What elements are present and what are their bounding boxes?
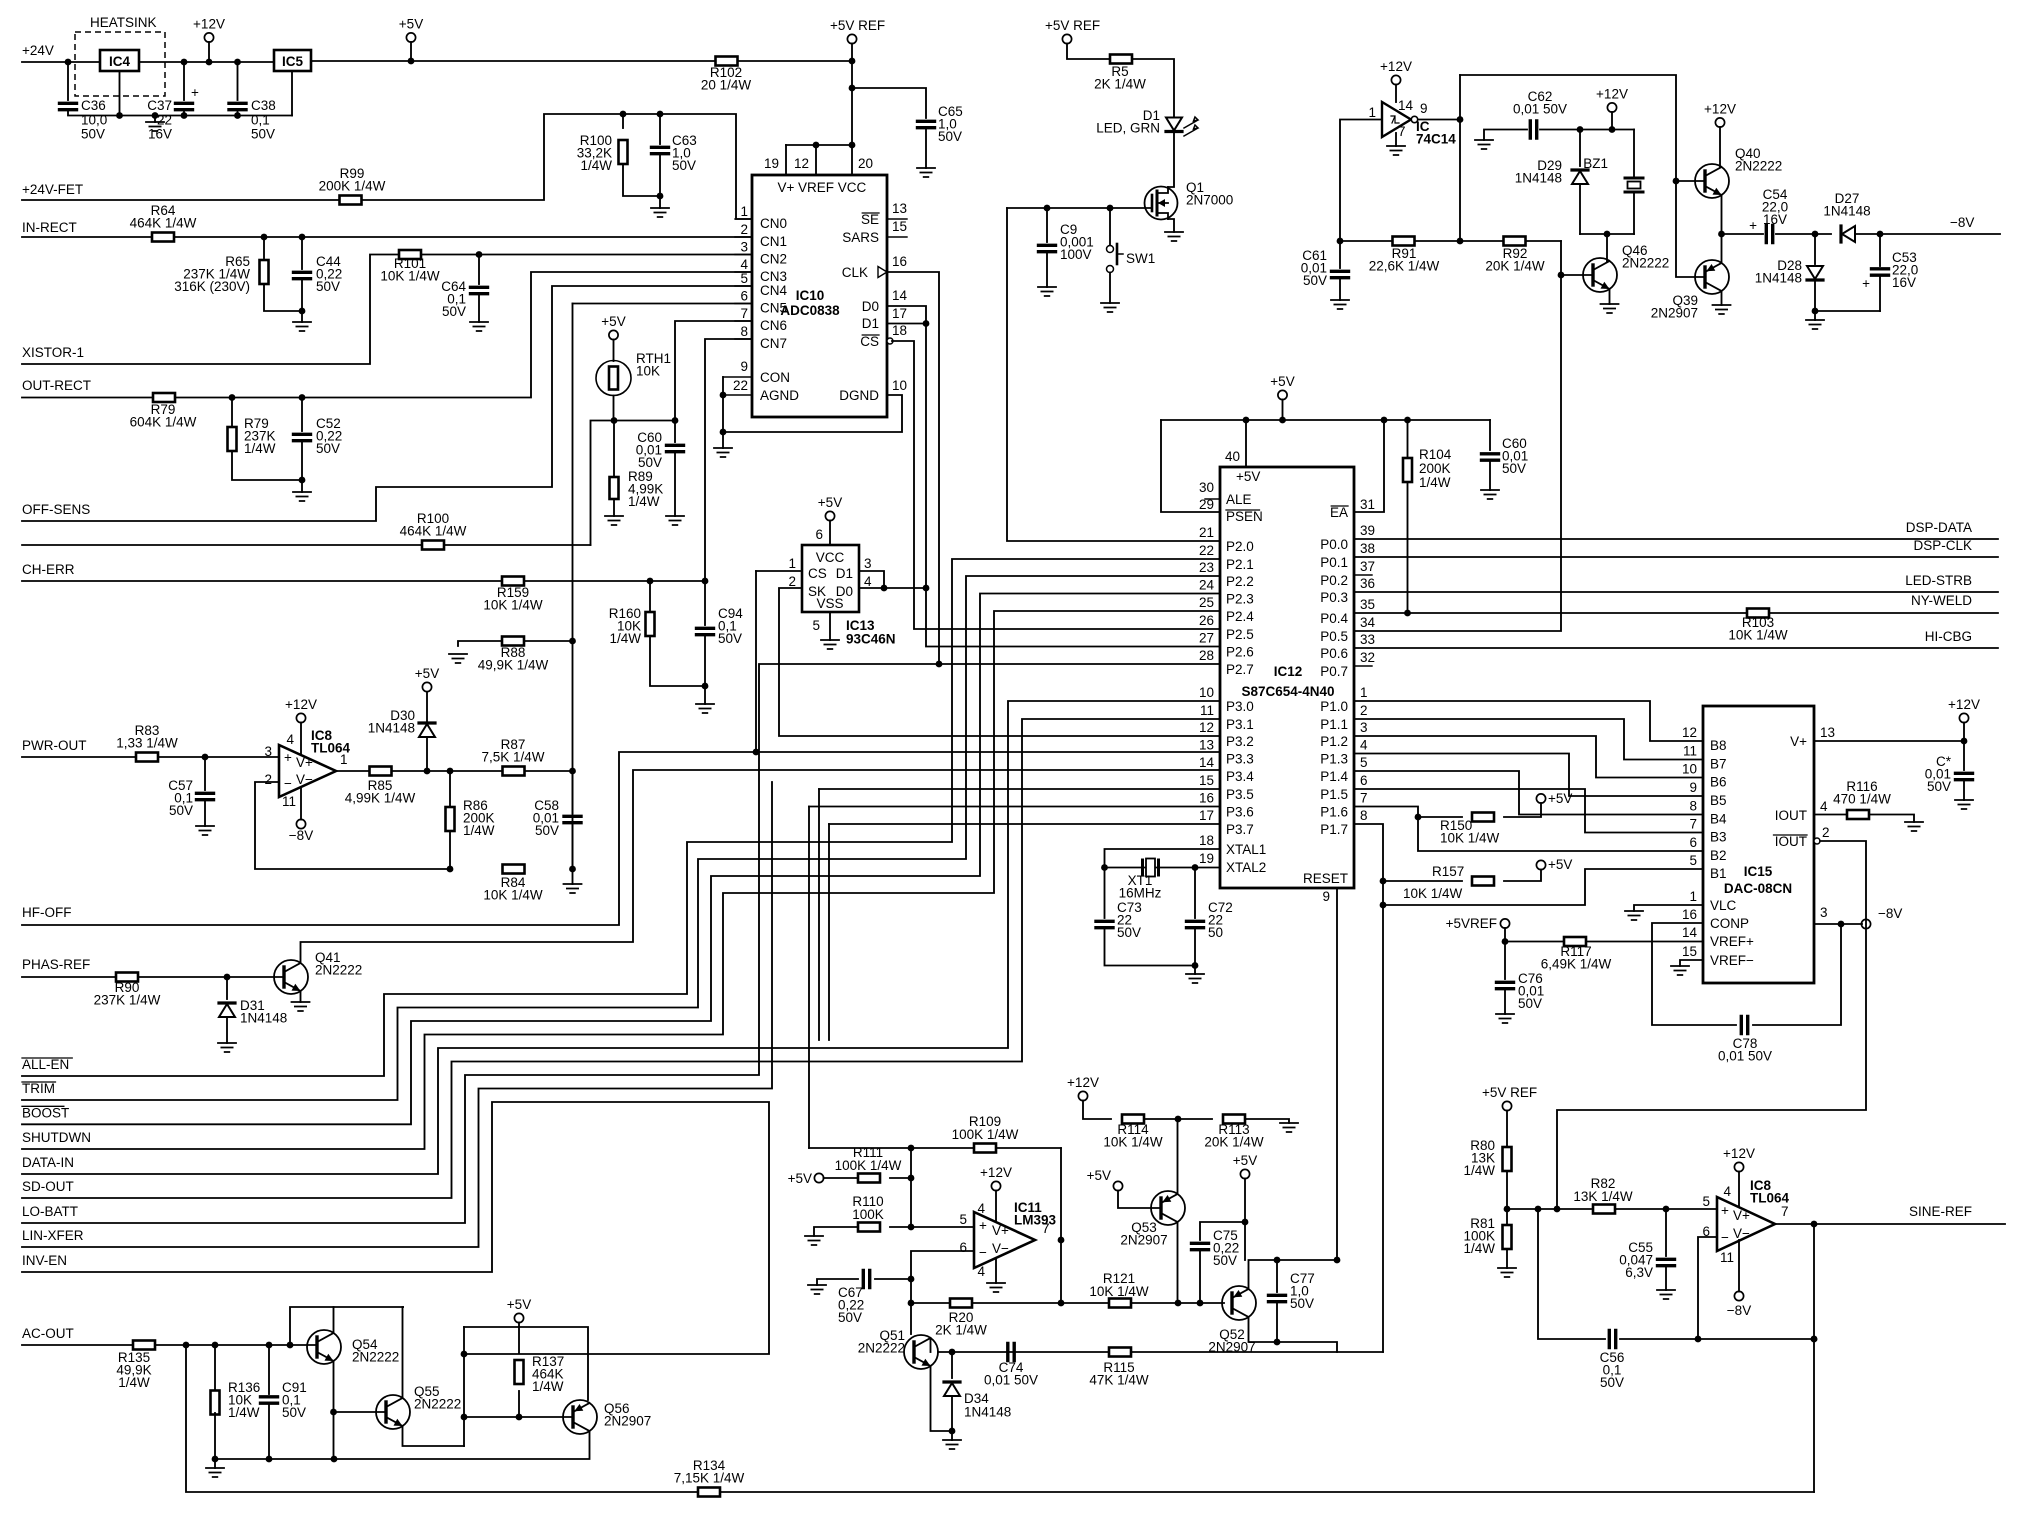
junction rail RESET (1334, 1257, 1341, 1264)
svg-text:15: 15 (892, 219, 907, 234)
wire DATA-IN bus to P3.0 (22, 701, 1220, 1174)
junction R88 node (569, 638, 576, 645)
junction rail +5V (1279, 417, 1286, 424)
svg-text:2N2222: 2N2222 (1622, 255, 1669, 270)
wire Q40 emitter to node (1721, 195, 1723, 234)
svg-text:50V: 50V (282, 1405, 306, 1420)
switch SW1 (1107, 246, 1114, 253)
svg-text:5: 5 (1360, 755, 1368, 770)
wire R109 out riser (1060, 1148, 1062, 1303)
svg-text:5: 5 (812, 618, 820, 633)
svg-text:CN7: CN7 (760, 336, 787, 351)
resistor R157 (1472, 877, 1494, 886)
power +5V Q53 (1113, 1181, 1122, 1190)
svg-text:P3.4: P3.4 (1226, 769, 1254, 784)
junction rail Q54e (331, 1456, 338, 1463)
junction C52 bottom (299, 477, 306, 484)
svg-text:IOUT: IOUT (1775, 834, 1807, 849)
wire D30 to +5V (426, 692, 428, 721)
wire R136 top lead (214, 1345, 216, 1392)
diode D29 (1572, 171, 1588, 184)
svg-text:7,5K 1/4W: 7,5K 1/4W (481, 749, 544, 764)
wire 74C14 gnd stem (1395, 133, 1397, 146)
pin stub CN5 (735, 303, 752, 305)
wire SINE-REF out (1775, 1223, 2005, 1225)
svg-text:+24V: +24V (22, 43, 54, 58)
junction Q56 base link (461, 1414, 468, 1421)
svg-text:16V: 16V (1763, 212, 1787, 227)
wire C56 line (1538, 1209, 1605, 1339)
ground C62 (1475, 140, 1493, 149)
svg-text:P0.2: P0.2 (1320, 573, 1348, 588)
pin stub SARS (887, 236, 907, 238)
svg-text:10K 1/4W: 10K 1/4W (1103, 1134, 1163, 1149)
svg-text:470 1/4W: 470 1/4W (1833, 791, 1891, 806)
buzzer BZ1 (1625, 178, 1643, 192)
wire R134 line (186, 1345, 1814, 1492)
junction -in drop (1695, 1336, 1702, 1343)
wire +12V stem (208, 42, 210, 62)
wire TRIM bus to P2.2 (22, 576, 1220, 1100)
resistor R99 (340, 196, 362, 205)
svg-text:1N4148: 1N4148 (1515, 170, 1562, 185)
junction R92 mid (1457, 238, 1464, 245)
svg-text:VSS: VSS (816, 596, 843, 611)
wire P1.0 to B8 (1354, 701, 1703, 741)
svg-text:+: + (284, 750, 292, 765)
svg-text:CLK: CLK (842, 265, 868, 280)
pin stub CN7 (735, 338, 752, 340)
junction +5V node (408, 58, 415, 65)
wire P3.7 feed (829, 823, 1220, 825)
svg-text:11: 11 (1683, 744, 1697, 759)
diode D34 (944, 1383, 960, 1396)
wire C44 bottom lead (301, 279, 303, 322)
wire 464K to RTH junction (591, 421, 615, 546)
svg-text:−: − (284, 776, 292, 791)
wire IC12 vcc rail (1161, 419, 1490, 421)
resistor R89 (610, 477, 619, 499)
wire R157 branch (1383, 880, 1462, 882)
junction C44 top (299, 234, 306, 241)
wire D1 stub (887, 323, 926, 325)
wire HF-OFF to P3.3 (22, 752, 1220, 925)
svg-text:−8V: −8V (1878, 906, 1902, 921)
wire IC13 CS net (756, 570, 802, 572)
thermistor RTH1 circle (596, 361, 631, 396)
wire +12V dac stem (1963, 723, 1965, 742)
resistor R113 (1223, 1115, 1245, 1124)
capacitor C36 (60, 103, 77, 109)
svg-text:16: 16 (1199, 791, 1214, 806)
junction R104 P0.4 (1404, 610, 1411, 617)
power +12V Q40 (1715, 118, 1724, 127)
svg-text:+12V: +12V (1723, 1146, 1755, 1161)
svg-text:D1: D1 (836, 566, 853, 581)
svg-text:100K 1/4W: 100K 1/4W (952, 1127, 1019, 1142)
svg-text:P2.2: P2.2 (1226, 574, 1254, 589)
svg-text:TL064: TL064 (311, 740, 351, 755)
wire C37 top lead (183, 62, 185, 100)
resistor R84 (503, 865, 525, 874)
svg-text:+12V: +12V (980, 1165, 1012, 1180)
transistor Q53 2N2907 (1151, 1191, 1185, 1225)
wire P3.7 riser (828, 824, 830, 1040)
wire C58 top lead (572, 771, 574, 813)
wire OUT-RECT to CN3 (22, 272, 752, 398)
ground C44 (293, 322, 311, 331)
svg-text:CN4: CN4 (760, 283, 787, 298)
svg-text:14: 14 (892, 288, 908, 303)
wire C60b ground lead (1489, 461, 1491, 490)
wire IC8b V- stem (1738, 1240, 1740, 1292)
wire C62 ground lead (1484, 130, 1527, 141)
wire P1.1 to B7 (1354, 719, 1703, 760)
wire IC13 SK net to P3.2 (779, 588, 1220, 736)
wire Q46 collector (1606, 234, 1608, 262)
svg-text:D1: D1 (862, 316, 879, 331)
svg-text:+5V: +5V (507, 1297, 531, 1312)
svg-text:16V: 16V (1892, 275, 1916, 290)
wire IC13 D0 net (859, 587, 926, 589)
junction C94 bottom (702, 683, 709, 690)
svg-text:10K 1/4W: 10K 1/4W (1403, 886, 1463, 901)
ground Q41 (292, 1002, 310, 1011)
wire fb to C56 line (1813, 1224, 1815, 1339)
junction +12V BZ1 (1609, 126, 1616, 133)
wire SD-OUT bus to P3.1 (22, 719, 1220, 1198)
wire C9 top lead (1046, 208, 1048, 242)
wire Cstar lead (1963, 741, 1965, 770)
wire C55 ground lead (1665, 1266, 1667, 1290)
wire R150 branch (1418, 816, 1462, 818)
wire CLK net to P2.7 tap (887, 272, 939, 664)
wire R65 top lead (263, 237, 265, 258)
wire R136 bottom lead (214, 1413, 216, 1459)
ground IC11 (987, 1283, 1005, 1292)
wire C73 lead (1104, 868, 1106, 919)
wire C53 top lead (1879, 234, 1881, 266)
svg-text:P2.1: P2.1 (1226, 557, 1254, 572)
svg-text:V+: V+ (296, 755, 313, 770)
ground C57 (196, 826, 214, 835)
svg-text:P0.7: P0.7 (1320, 664, 1348, 679)
svg-text:V+: V+ (1733, 1208, 1750, 1223)
wire xtal ground lead (1194, 966, 1196, 975)
junction node A (908, 1175, 915, 1182)
wire EA riser (1354, 420, 1384, 512)
svg-text:1/4W: 1/4W (463, 823, 495, 838)
transistor Q46 2N2222 (1583, 258, 1617, 292)
resistor R159 (502, 577, 524, 586)
svg-text:+5V: +5V (399, 17, 423, 32)
wire R100a bottom (623, 164, 660, 196)
wire LIN-XFER bus riser (22, 782, 772, 1247)
svg-text:50V: 50V (1213, 1253, 1237, 1268)
svg-text:B3: B3 (1710, 830, 1727, 845)
junction AGND (720, 392, 727, 399)
wire R116 to ground (1869, 815, 1914, 823)
resistor R104 (1403, 458, 1412, 482)
junction Q46 base (1558, 272, 1565, 279)
junction +5VREF rail (849, 58, 856, 65)
wire C63 bottom lead (659, 154, 661, 208)
svg-text:27: 27 (1199, 631, 1214, 646)
svg-text:14: 14 (1199, 755, 1215, 770)
svg-text:HEATSINK: HEATSINK (90, 15, 157, 30)
wire node A riser (910, 1148, 912, 1227)
svg-text:7,15K 1/4W: 7,15K 1/4W (674, 1470, 745, 1485)
wire C67 gnd lead (817, 1279, 858, 1285)
svg-text:CS: CS (808, 566, 827, 581)
op IC10 ADC0838 box (752, 175, 887, 417)
wire C52 bottom lead (301, 441, 303, 492)
svg-text:1/4W: 1/4W (609, 631, 641, 646)
svg-text:P2.5: P2.5 (1226, 627, 1254, 642)
svg-text:22: 22 (157, 112, 172, 127)
svg-text:+5V: +5V (1548, 791, 1572, 806)
wire R65 bottom (264, 284, 302, 311)
junction D1 tap (923, 320, 930, 327)
resistor R100 464K (422, 541, 444, 550)
wire VREF- stub (1680, 960, 1703, 966)
wire D29 top lead (1579, 130, 1581, 167)
svg-text:R157: R157 (1432, 864, 1464, 879)
wire Q55 base (334, 1411, 387, 1413)
svg-text:−: − (979, 1245, 987, 1260)
wire Q51 gnd stem (951, 1431, 953, 1440)
svg-text:6: 6 (740, 289, 748, 304)
svg-text:10K 1/4W: 10K 1/4W (483, 597, 543, 612)
svg-text:VREF−: VREF− (1710, 953, 1754, 968)
resistor R81 (1503, 1225, 1512, 1249)
ground R81 (1498, 1268, 1516, 1277)
wire pin20 stub (851, 145, 853, 175)
wire base chain (1676, 181, 1705, 277)
resistor R137 (515, 1360, 524, 1384)
svg-text:RESET: RESET (1303, 871, 1348, 886)
svg-text:XTAL1: XTAL1 (1226, 842, 1266, 857)
clk input triangle (878, 267, 887, 278)
wire C36 leads (67, 62, 69, 100)
svg-text:30: 30 (1199, 480, 1214, 495)
ground Q46 (1601, 304, 1619, 313)
junction node A rail (908, 1145, 915, 1152)
resistor R136 (211, 1391, 220, 1415)
dac IC15 DAC-08CN box (1703, 706, 1814, 983)
svg-text:2N2222: 2N2222 (414, 1396, 461, 1411)
wire Q1 gate net (1007, 207, 1152, 209)
wire D31 lead (226, 977, 228, 999)
svg-text:IC15: IC15 (1744, 864, 1773, 879)
svg-text:1/4W: 1/4W (1419, 475, 1451, 490)
ground VREF- (1671, 966, 1689, 975)
diode D1 LED (1166, 118, 1182, 131)
wire C44 top lead (301, 237, 303, 269)
svg-text:S87C654-4N40: S87C654-4N40 (1241, 684, 1334, 699)
capacitor C64 (471, 287, 488, 293)
resistor R109 (974, 1144, 996, 1153)
svg-text:0,1: 0,1 (251, 112, 270, 127)
wire C72 bottom (1194, 928, 1196, 966)
wire C77 top lead (1276, 1260, 1278, 1292)
svg-text:CN3: CN3 (760, 269, 787, 284)
svg-text:P1.4: P1.4 (1320, 769, 1348, 784)
junction R84 right (569, 866, 576, 873)
transistor Q55 2N2222 (376, 1395, 410, 1429)
transistor Q52 2N2907 (1222, 1286, 1256, 1320)
junction C57 tap (202, 754, 209, 761)
wire 464K net (22, 544, 591, 546)
junction VREF tap (849, 142, 856, 149)
capacitor C76 (1497, 982, 1514, 988)
junction fb node (1811, 1221, 1818, 1228)
svg-text:50V: 50V (638, 455, 662, 470)
junction Cstar top (1961, 738, 1968, 745)
wire C62 to D29 BZ1 (1540, 129, 1634, 131)
svg-text:P3.0: P3.0 (1226, 699, 1254, 714)
svg-text:50V: 50V (718, 631, 742, 646)
svg-text:DGND: DGND (839, 388, 879, 403)
junction C52 top (299, 394, 306, 401)
svg-text:4: 4 (286, 732, 294, 747)
wire R5 to LED (1132, 59, 1174, 118)
wire C53 bottom lead (1879, 276, 1881, 311)
power +5V REF R5 (1062, 34, 1071, 43)
junction C91 top (266, 1342, 273, 1349)
wire CN5 riser (572, 304, 574, 870)
wire 74C14 input net (1340, 120, 1382, 242)
svg-text:1/4W: 1/4W (532, 1379, 564, 1394)
cs inverting bubble (887, 338, 893, 344)
svg-text:+5V REF: +5V REF (1482, 1085, 1537, 1100)
svg-text:3: 3 (1360, 720, 1368, 735)
svg-text:6,3V: 6,3V (1625, 1265, 1653, 1280)
svg-text:15: 15 (1682, 944, 1697, 959)
junction C44 bottom (299, 308, 306, 315)
junction R136 top (212, 1342, 219, 1349)
svg-text:8: 8 (1689, 799, 1697, 814)
svg-text:12: 12 (1199, 720, 1214, 735)
svg-text:P1.2: P1.2 (1320, 734, 1348, 749)
svg-text:6: 6 (959, 1240, 967, 1255)
svg-text:IC12: IC12 (1274, 664, 1303, 679)
svg-text:TL064: TL064 (1750, 1190, 1790, 1205)
wire Q41 collector to P3.4 (301, 770, 1221, 963)
svg-text:P3.1: P3.1 (1226, 717, 1254, 732)
svg-text:4: 4 (1723, 1184, 1731, 1199)
svg-text:CH-ERR: CH-ERR (22, 562, 75, 577)
wire R114 feed (1083, 1101, 1111, 1120)
wire IC4 to IC5 (139, 61, 274, 63)
wire +5V stem (410, 42, 412, 61)
wire R5 feed (1067, 44, 1110, 60)
power +12V dac (1959, 713, 1968, 722)
wire C65 branch (852, 88, 926, 118)
svg-text:B1: B1 (1710, 866, 1727, 881)
svg-text:5: 5 (1702, 1194, 1710, 1209)
op-amp IC8a TL064 (279, 745, 336, 797)
wire R80 bottom lead (1506, 1171, 1508, 1209)
capacitor C* (1956, 773, 1973, 779)
svg-text:CN6: CN6 (760, 318, 787, 333)
svg-text:8: 8 (1360, 808, 1368, 823)
wire C76 ground lead (1504, 989, 1506, 1014)
junction C73 top (1101, 864, 1108, 871)
power -8V IC8a (296, 819, 305, 828)
svg-text:P2.4: P2.4 (1226, 609, 1254, 624)
power +5V IC13 (825, 511, 834, 520)
power +12V 74C14 (1391, 75, 1400, 84)
svg-text:D0: D0 (862, 299, 879, 314)
resistor R80 (1503, 1147, 1512, 1171)
svg-text:1/4W: 1/4W (1463, 1241, 1495, 1256)
svg-text:P0.5: P0.5 (1320, 629, 1348, 644)
power +5V REF terminal (847, 34, 856, 43)
wire C75 branch (1200, 1222, 1245, 1240)
resistor R114 (1122, 1115, 1144, 1124)
wire inverter out riser (1459, 75, 1461, 241)
resistor R135 (133, 1341, 155, 1350)
capacitor C57 (197, 793, 214, 799)
svg-text:20K 1/4W: 20K 1/4W (1204, 1134, 1264, 1149)
svg-text:P0.0: P0.0 (1320, 537, 1348, 552)
power +12V IC8a (296, 713, 305, 722)
capacitor C65 (918, 121, 935, 127)
wire +5VREF vertical (851, 44, 853, 146)
resistor R160 (646, 612, 655, 636)
svg-text:9: 9 (1689, 780, 1697, 795)
power +5V IC12 (1278, 390, 1287, 399)
junction RTH1 R89 (611, 417, 618, 424)
svg-text:10K: 10K (636, 363, 660, 378)
junction DGND return (720, 429, 727, 436)
wire D30 lead (426, 737, 428, 771)
wire D34 bottom lead (951, 1396, 953, 1431)
wire Q54 collector (334, 1307, 404, 1333)
svg-text:14: 14 (1682, 925, 1698, 940)
wire Q39 collector top (1721, 234, 1723, 263)
svg-text:CN2: CN2 (760, 252, 787, 267)
wire R134 riser (1813, 1339, 1815, 1492)
svg-text:20 1/4W: 20 1/4W (701, 77, 752, 92)
junction C63 top (657, 111, 664, 118)
svg-text:+: + (1721, 1203, 1729, 1218)
wire C9 net to P2.0 (1007, 208, 1220, 541)
svg-text:50V: 50V (535, 823, 559, 838)
resistor R100 33K (619, 140, 628, 164)
wire R81 top lead (1506, 1209, 1508, 1224)
svg-text:3: 3 (740, 240, 748, 255)
ioutbar bubble (1814, 838, 1820, 844)
wire pin40 stub (1245, 420, 1247, 467)
svg-text:50V: 50V (169, 803, 193, 818)
svg-text:19: 19 (764, 156, 779, 171)
svg-text:7: 7 (1781, 1204, 1789, 1219)
svg-text:+12V: +12V (285, 697, 317, 712)
svg-text:LM393: LM393 (1014, 1212, 1057, 1227)
svg-text:26: 26 (1199, 613, 1214, 628)
diode D27 (1842, 226, 1855, 242)
svg-text:6: 6 (815, 527, 823, 542)
junction INV-EN join (461, 1351, 468, 1358)
junction C67 node (908, 1276, 915, 1283)
wire AGND stub (723, 394, 752, 396)
wire R79b bottom (232, 451, 302, 480)
junction Q55 base tap (330, 1409, 337, 1416)
svg-text:+5V: +5V (1233, 1153, 1257, 1168)
ground C* (1955, 800, 1973, 809)
